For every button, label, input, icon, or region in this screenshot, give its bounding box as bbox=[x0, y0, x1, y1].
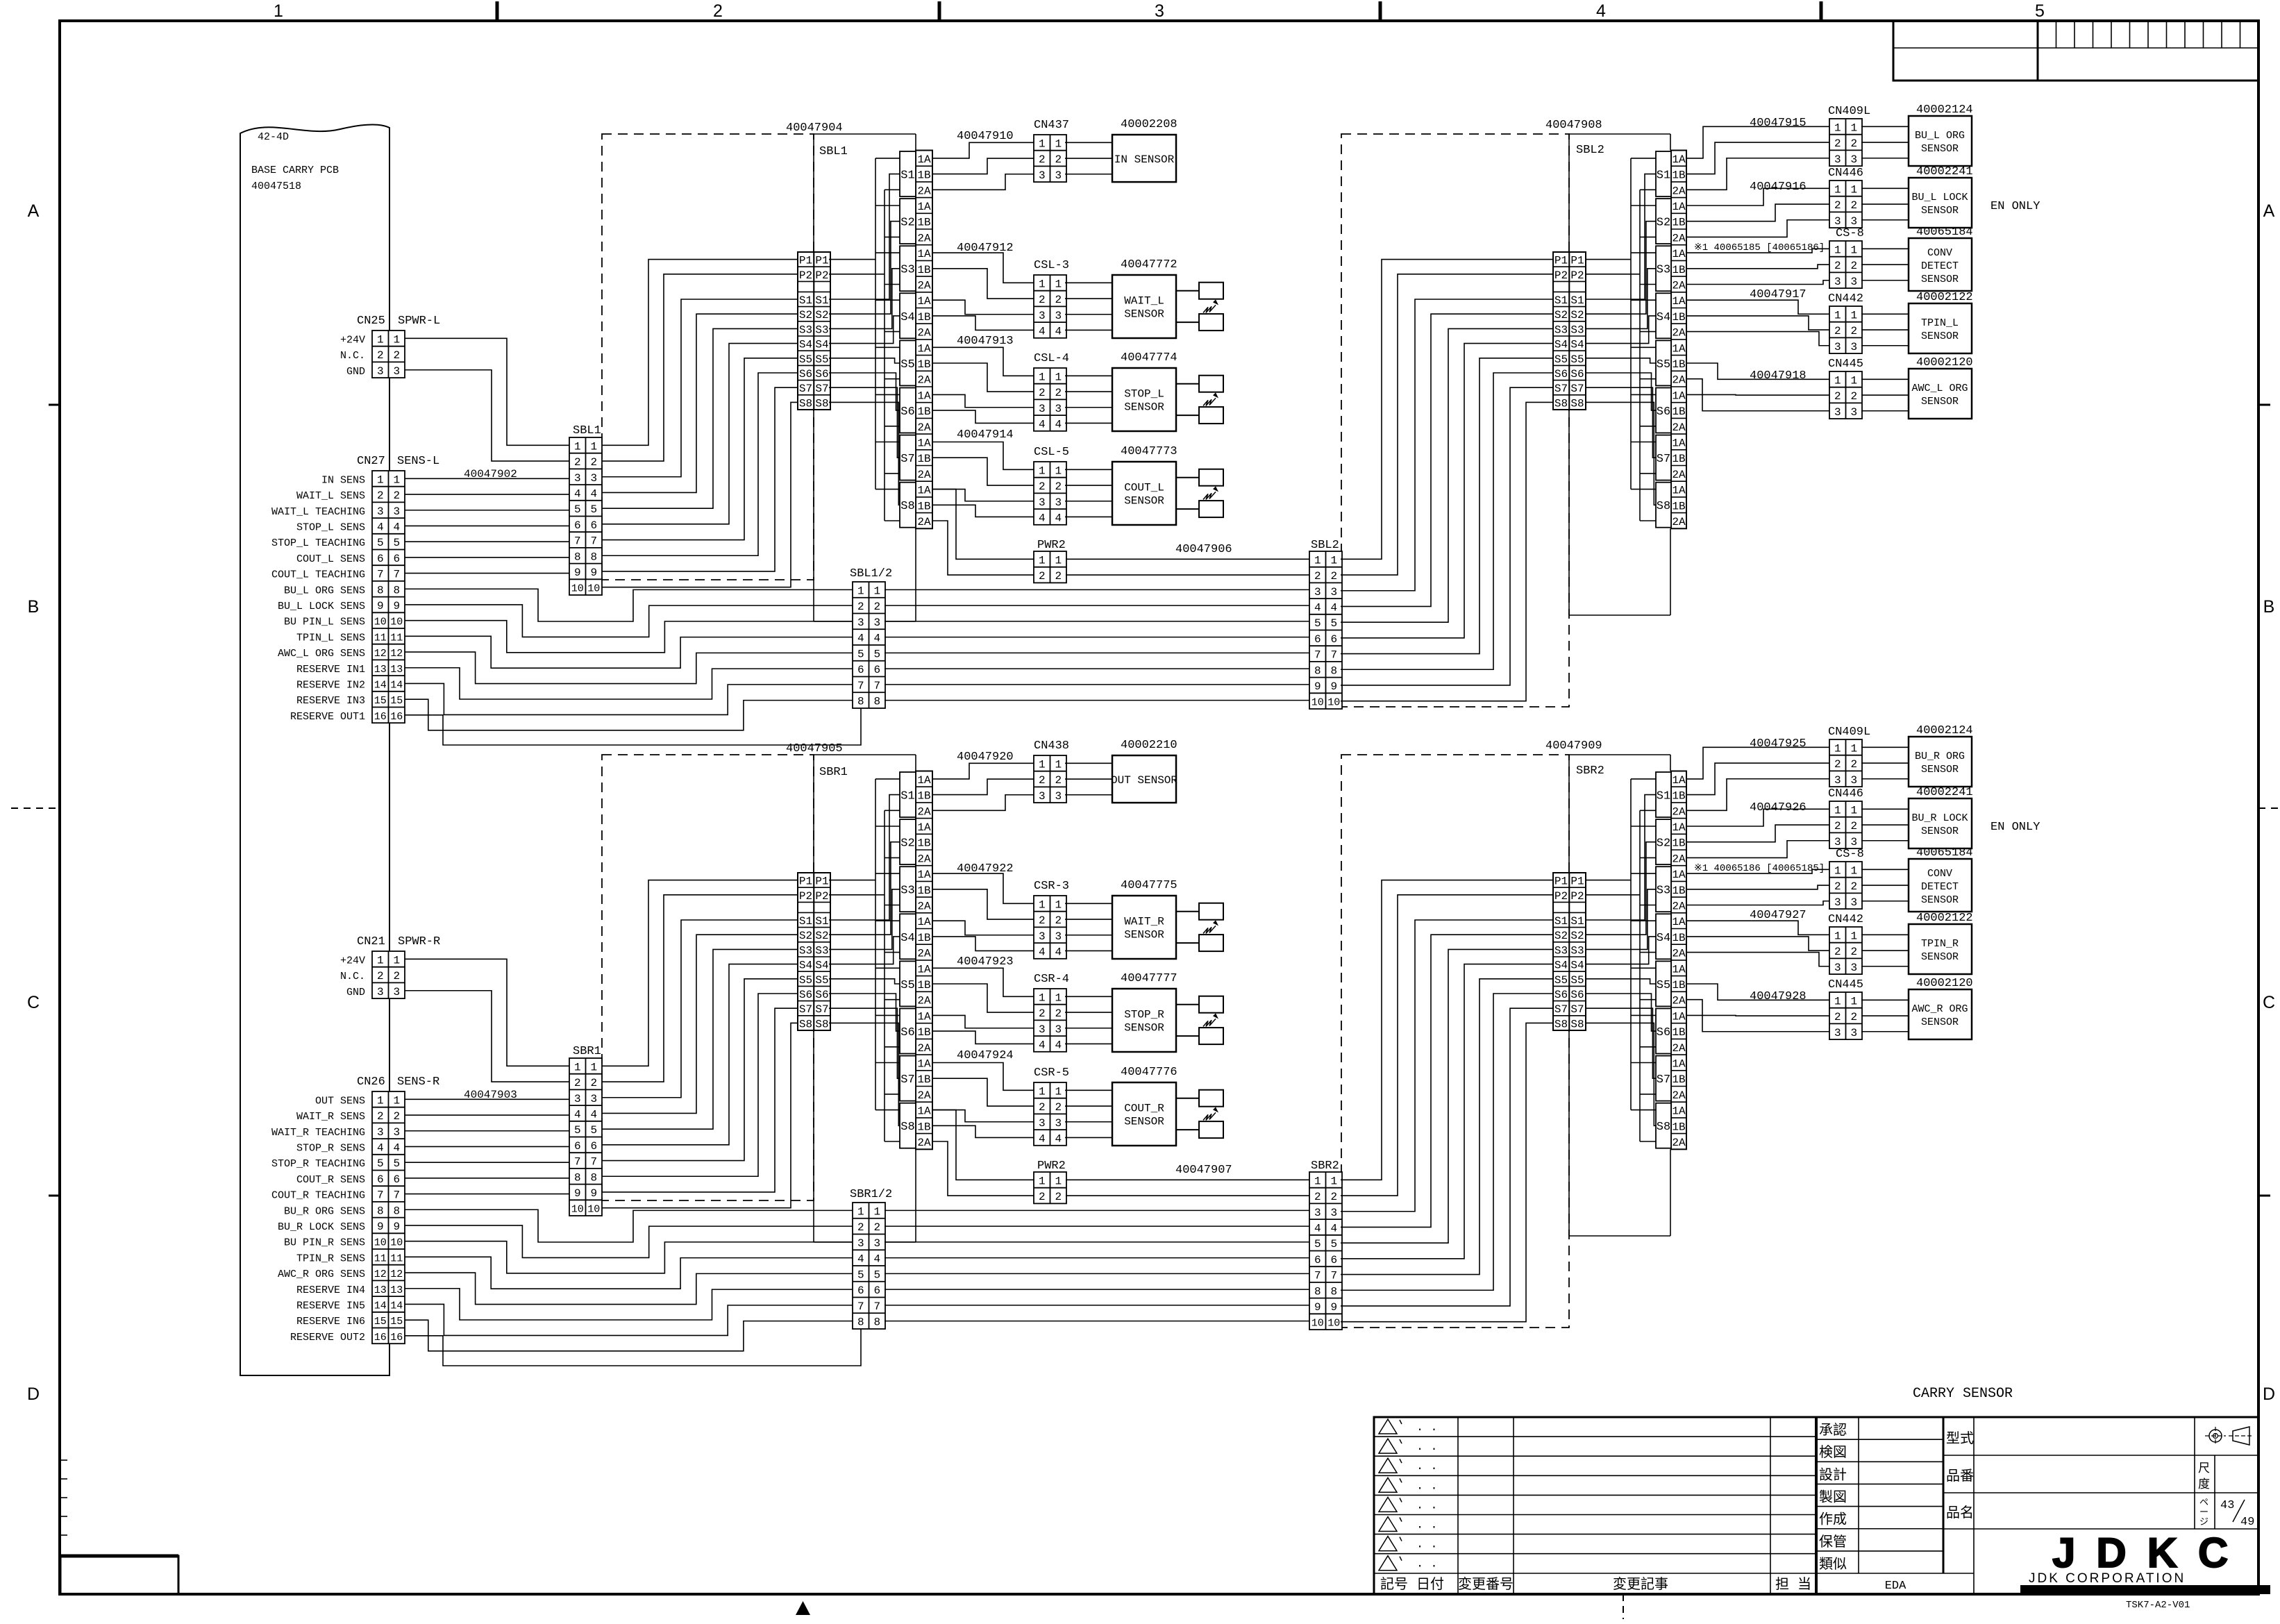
svg-text:40047918: 40047918 bbox=[1750, 369, 1807, 383]
wire CN26-7 to SBR1-9 bbox=[405, 1194, 569, 1195]
svg-text:2: 2 bbox=[377, 349, 384, 362]
svg-text:10: 10 bbox=[374, 1237, 387, 1249]
svg-text:1A: 1A bbox=[917, 153, 931, 166]
svg-text:WAIT_R: WAIT_R bbox=[1124, 916, 1164, 928]
svg-text:2: 2 bbox=[1850, 325, 1857, 337]
svg-text:40047907: 40047907 bbox=[1175, 1164, 1232, 1177]
svg-text:16: 16 bbox=[390, 711, 403, 723]
svg-text:SBR1: SBR1 bbox=[573, 1045, 601, 1058]
svg-text:WAIT_R SENS: WAIT_R SENS bbox=[296, 1111, 365, 1123]
wire S6-1A to CSL-4-3 bbox=[932, 394, 1034, 407]
svg-text:3: 3 bbox=[377, 365, 384, 378]
harness internal connector P/S block of SBL1 bbox=[798, 252, 830, 410]
svg-text:S3: S3 bbox=[815, 944, 828, 957]
wire CN409L-2 to sensor 40002124 bbox=[1861, 142, 1909, 143]
svg-text:CSL-3: CSL-3 bbox=[1034, 259, 1069, 272]
svg-text:1: 1 bbox=[1834, 995, 1841, 1007]
svg-text:CS-8: CS-8 bbox=[1836, 848, 1864, 861]
svg-text:2: 2 bbox=[1850, 820, 1857, 832]
svg-text:BU_R ORG SENS: BU_R ORG SENS bbox=[284, 1205, 365, 1217]
wire SBR1/2-1 to SBR2-3 bbox=[885, 1209, 1309, 1211]
optical beam zigzag symbol of 40047772 bbox=[1203, 305, 1216, 312]
svg-text:1B: 1B bbox=[917, 932, 930, 944]
optical beam zigzag symbol of 40047776 bbox=[1203, 1112, 1216, 1120]
wire CN27-5 to SBL1-7 bbox=[405, 541, 569, 542]
svg-text:3: 3 bbox=[1039, 1023, 1046, 1036]
ground bus wire P2 to 2A pins of SBL2 groups bbox=[1586, 190, 1656, 521]
svg-text:7: 7 bbox=[377, 1189, 384, 1202]
svg-text:1: 1 bbox=[1039, 137, 1046, 150]
svg-text:2A: 2A bbox=[917, 327, 931, 340]
svg-text:1: 1 bbox=[1850, 309, 1857, 321]
signal wire S5 to 1B pin of group S5 bbox=[829, 979, 900, 984]
svg-text:1A: 1A bbox=[1672, 916, 1686, 928]
B/C boundary dashed extension marks bbox=[11, 807, 2279, 809]
svg-text:3: 3 bbox=[1850, 1027, 1857, 1039]
svg-text:BU_L LOCK: BU_L LOCK bbox=[1911, 192, 1968, 203]
svg-text:40002122: 40002122 bbox=[1916, 912, 1973, 925]
svg-text:2A: 2A bbox=[917, 1137, 931, 1149]
svg-text:S6: S6 bbox=[900, 1026, 914, 1039]
wire CN445-2 to sensor 40002120 bbox=[1861, 394, 1909, 396]
wire CN446-2 to sensor 40002241 bbox=[1861, 824, 1909, 826]
BASE CARRY PCB outline box bbox=[240, 125, 389, 1375]
wire CN445-1 to sensor 40002120 bbox=[1861, 999, 1909, 1001]
svg-text:2A: 2A bbox=[917, 421, 931, 434]
svg-text:2A: 2A bbox=[1672, 516, 1686, 528]
svg-text:2: 2 bbox=[1850, 390, 1857, 403]
svg-text:2A: 2A bbox=[917, 995, 931, 1007]
svg-text:S5: S5 bbox=[1554, 974, 1568, 987]
wire CN27-13 to SBL1/2-6 bbox=[405, 668, 853, 699]
svg-text:4: 4 bbox=[1055, 1039, 1062, 1051]
svg-text:9: 9 bbox=[1314, 680, 1321, 693]
wire SBR2-3 to unit pin S1 bbox=[1341, 920, 1553, 1212]
wire S8-2A to PWR2-2 bbox=[932, 1141, 1034, 1196]
svg-text:1: 1 bbox=[1834, 374, 1841, 387]
svg-text:S1: S1 bbox=[1570, 294, 1584, 307]
svg-text:3: 3 bbox=[857, 1237, 864, 1250]
wire S7-1A to CSR-5-1 bbox=[932, 1063, 1034, 1091]
wire CN446-1 to sensor 40002241 bbox=[1861, 808, 1909, 810]
wire CN26-9 to SBR1/2-2 bbox=[405, 1225, 853, 1257]
svg-text:SENSOR: SENSOR bbox=[1921, 396, 1959, 408]
wire SBR2-6 to unit pin S4 bbox=[1341, 964, 1553, 1259]
svg-text:CN409L: CN409L bbox=[1828, 105, 1870, 118]
svg-text:40047906: 40047906 bbox=[1175, 543, 1232, 556]
svg-text:8: 8 bbox=[873, 1316, 880, 1329]
svg-text:1B: 1B bbox=[917, 979, 930, 991]
svg-text:尺: 尺 bbox=[2198, 1462, 2210, 1476]
svg-text:2: 2 bbox=[377, 970, 384, 982]
wire CSL-3-3 to sensor 40047772 bbox=[1065, 314, 1112, 315]
svg-text:1A: 1A bbox=[917, 342, 931, 355]
connector CSR-4 pin block bbox=[1034, 989, 1066, 1052]
wire S7-1A to CSL-5-1 bbox=[932, 442, 1034, 470]
svg-text:1: 1 bbox=[873, 585, 880, 597]
wire CS-8-2 to sensor 40065184 bbox=[1861, 885, 1909, 886]
wire S6-1A to CN445-2 bbox=[1686, 1014, 1829, 1016]
dashed harness boundary box 40047909 SBR2 bbox=[1341, 755, 1569, 1328]
wire S4-1A to CN442-1 bbox=[1686, 921, 1829, 935]
wire S4-1A to CN442-1 bbox=[1686, 300, 1829, 314]
svg-text:40047775: 40047775 bbox=[1121, 879, 1177, 892]
svg-text:1A: 1A bbox=[1672, 869, 1686, 881]
svg-text:3: 3 bbox=[1055, 1023, 1062, 1036]
svg-text:1: 1 bbox=[1039, 278, 1046, 290]
sensor box 40065184 CONV bbox=[1909, 238, 1972, 291]
svg-text:EDA: EDA bbox=[1885, 1580, 1906, 1593]
svg-text:40065184: 40065184 bbox=[1916, 846, 1973, 860]
wire CN26-2 to SBR1-4 bbox=[405, 1114, 569, 1116]
svg-text:2A: 2A bbox=[1672, 995, 1686, 1007]
svg-text:2: 2 bbox=[1039, 774, 1046, 787]
svg-text:16: 16 bbox=[390, 1332, 403, 1343]
svg-text:AWC_L ORG SENS: AWC_L ORG SENS bbox=[278, 648, 365, 660]
svg-text:4: 4 bbox=[1039, 1039, 1046, 1051]
svg-text:DETECT: DETECT bbox=[1921, 881, 1959, 893]
svg-text:S3: S3 bbox=[1657, 885, 1670, 898]
svg-text:WAIT_L: WAIT_L bbox=[1124, 295, 1164, 308]
svg-text:8: 8 bbox=[1314, 664, 1321, 677]
svg-text:3: 3 bbox=[1055, 1117, 1062, 1130]
svg-text:8: 8 bbox=[574, 551, 581, 563]
svg-text:S5: S5 bbox=[1570, 353, 1584, 366]
svg-text:ペ: ペ bbox=[2199, 1498, 2208, 1508]
svg-text:D: D bbox=[27, 1384, 40, 1404]
svg-text:S4: S4 bbox=[1570, 960, 1584, 972]
svg-text:2: 2 bbox=[1850, 946, 1857, 958]
svg-text:S7: S7 bbox=[900, 1073, 914, 1087]
svg-text:3: 3 bbox=[393, 986, 400, 998]
svg-text:6: 6 bbox=[377, 1173, 384, 1186]
svg-text:1B: 1B bbox=[1672, 932, 1685, 944]
wire SBR1-8 to unit pin S6 bbox=[602, 994, 798, 1176]
svg-text:RESERVE IN3: RESERVE IN3 bbox=[296, 695, 365, 707]
svg-text:1A: 1A bbox=[1672, 485, 1686, 497]
svg-text:4: 4 bbox=[1039, 325, 1046, 337]
connector CS-8 pin block bbox=[1829, 241, 1862, 288]
svg-text:15: 15 bbox=[374, 1316, 387, 1328]
svg-text:ジ: ジ bbox=[2199, 1517, 2208, 1527]
svg-text:40002241: 40002241 bbox=[1916, 786, 1973, 799]
connector SBR2 pin block bbox=[1309, 1172, 1342, 1330]
wire CN445-2 to sensor 40002120 bbox=[1861, 1015, 1909, 1016]
wire SBR1-6 to unit pin S4 bbox=[602, 964, 798, 1145]
svg-text:8: 8 bbox=[393, 1205, 400, 1217]
signal wire S6 to 1B pin of group S6 (SBR2) bbox=[1586, 994, 1656, 1031]
svg-text:2: 2 bbox=[1834, 946, 1841, 958]
wire CSR-5-2 to sensor 40047776 bbox=[1065, 1105, 1112, 1107]
wire CN437-3 to sensor 40002208 bbox=[1065, 174, 1112, 175]
svg-text:40002210: 40002210 bbox=[1121, 739, 1177, 752]
svg-text:2: 2 bbox=[1834, 325, 1841, 337]
svg-text:CS-8: CS-8 bbox=[1836, 227, 1864, 240]
wire SBR2-2 to unit pin P2 bbox=[1341, 895, 1553, 1196]
svg-text:S5: S5 bbox=[900, 979, 914, 992]
shield drain wire loop of SBR1 bbox=[814, 755, 916, 1242]
svg-text:S8: S8 bbox=[1570, 1018, 1584, 1030]
svg-text:BU PIN_L SENS: BU PIN_L SENS bbox=[284, 617, 365, 628]
svg-text:14: 14 bbox=[374, 1300, 387, 1312]
svg-text:S3: S3 bbox=[900, 264, 914, 277]
svg-text:3: 3 bbox=[590, 472, 597, 485]
svg-text:1: 1 bbox=[377, 1094, 384, 1107]
svg-text:2: 2 bbox=[1055, 570, 1062, 583]
svg-text:CN445: CN445 bbox=[1828, 358, 1863, 371]
wire S1-1A to CN409L-1 bbox=[1686, 747, 1829, 779]
svg-text:4: 4 bbox=[393, 1141, 400, 1154]
svg-text:40047924: 40047924 bbox=[957, 1049, 1014, 1062]
JDKC corporation logo bbox=[2020, 1530, 2270, 1594]
svg-text:製図: 製図 bbox=[1819, 1489, 1847, 1506]
wire SBR1/2-8 to SBR2-10 bbox=[885, 1321, 1309, 1322]
sensor box 40002210 bbox=[1111, 755, 1177, 803]
wire S6-1B to CSR-4-4 bbox=[932, 1031, 1034, 1044]
signal wire S3 to 1B pin of group S3 (SBL2) bbox=[1586, 269, 1656, 329]
svg-text:1: 1 bbox=[1314, 1175, 1321, 1187]
svg-text:S2: S2 bbox=[1554, 309, 1568, 321]
signal wire S7 to 1B pin of group S7 bbox=[829, 1008, 900, 1078]
svg-text:2A: 2A bbox=[917, 279, 931, 292]
wire CN27-10 to SBL1/2-3 bbox=[405, 621, 853, 653]
svg-text:S6: S6 bbox=[1657, 405, 1670, 419]
svg-text:2: 2 bbox=[1834, 820, 1841, 832]
svg-text:S1: S1 bbox=[815, 294, 828, 307]
svg-text:10: 10 bbox=[1327, 697, 1340, 709]
svg-text:1: 1 bbox=[1330, 1175, 1337, 1187]
svg-text:CARRY SENSOR: CARRY SENSOR bbox=[1913, 1386, 2013, 1402]
reflector target boxes of 40047773 bbox=[1176, 469, 1223, 517]
connector CN442 pin block bbox=[1829, 927, 1862, 974]
svg-text:7: 7 bbox=[574, 535, 581, 548]
power bus wire P1 to 1A pins of SBR1 groups bbox=[829, 779, 900, 1110]
svg-text:10: 10 bbox=[1311, 697, 1324, 709]
svg-text:S8: S8 bbox=[815, 1018, 828, 1030]
wire CN442-3 to sensor 40002122 bbox=[1861, 345, 1909, 346]
svg-text:5: 5 bbox=[873, 1269, 880, 1281]
wire S5-1A to CSL-4-1 bbox=[932, 347, 1034, 376]
svg-text:1: 1 bbox=[274, 1, 283, 21]
svg-text:9: 9 bbox=[393, 1221, 400, 1233]
wire S1-1B to CN437-2 bbox=[932, 158, 1034, 174]
svg-text:1B: 1B bbox=[917, 358, 930, 371]
svg-text:6: 6 bbox=[393, 553, 400, 565]
wire CN27-2 to SBL1-4 bbox=[405, 494, 569, 495]
reflector target boxes of 40047774 bbox=[1176, 376, 1223, 424]
connector CSR-5 pin block bbox=[1034, 1082, 1066, 1146]
svg-text:11: 11 bbox=[390, 1253, 403, 1264]
svg-text:CN445: CN445 bbox=[1828, 978, 1863, 991]
sensor box 40002124 BU_L ORG bbox=[1909, 116, 1972, 166]
wire CN442-2 to sensor 40002122 bbox=[1861, 329, 1909, 330]
svg-text:S8: S8 bbox=[1554, 1018, 1568, 1030]
wire S1-2A to CN409L-3 bbox=[1686, 779, 1829, 811]
svg-text:S2: S2 bbox=[1657, 837, 1670, 851]
wire S4-1B to CSL-3-4 bbox=[932, 316, 1034, 330]
svg-text:+24V: +24V bbox=[340, 334, 365, 346]
wire CSL-3-1 to sensor 40047772 bbox=[1065, 282, 1112, 283]
svg-text:1: 1 bbox=[1850, 742, 1857, 755]
svg-text:5: 5 bbox=[1314, 1238, 1321, 1250]
wire S4-2A to CN442-3 bbox=[1686, 332, 1829, 346]
svg-text:8: 8 bbox=[590, 1171, 597, 1184]
svg-text:S7: S7 bbox=[799, 1003, 812, 1016]
svg-text:S3: S3 bbox=[1554, 944, 1568, 957]
svg-text:S5: S5 bbox=[1554, 353, 1568, 366]
svg-text:1: 1 bbox=[1850, 995, 1857, 1007]
svg-text:. .: . . bbox=[1416, 1480, 1438, 1493]
svg-text:2: 2 bbox=[1039, 1101, 1046, 1114]
wire CN26-10 to SBR1/2-3 bbox=[405, 1241, 853, 1273]
svg-text:S3: S3 bbox=[799, 324, 812, 336]
wire CSL-5-3 to sensor 40047773 bbox=[1065, 501, 1112, 502]
svg-text:9: 9 bbox=[590, 1187, 597, 1200]
svg-text:7: 7 bbox=[590, 1156, 597, 1169]
shield drain wire loop of SBL2 bbox=[1569, 134, 1670, 615]
connector PWR2 pin block bbox=[1034, 1172, 1066, 1203]
connector CN445 pin block bbox=[1829, 992, 1862, 1039]
svg-text:保管: 保管 bbox=[1819, 1534, 1847, 1551]
svg-text:RESERVE IN6: RESERVE IN6 bbox=[296, 1316, 365, 1328]
svg-text:1A: 1A bbox=[917, 201, 931, 213]
svg-text:4: 4 bbox=[590, 487, 597, 500]
wire CSL-4-3 to sensor 40047774 bbox=[1065, 407, 1112, 408]
svg-text:IN SENS: IN SENS bbox=[321, 474, 365, 486]
wire CN27-9 to SBL1/2-2 bbox=[405, 605, 853, 637]
wire SBR2-7 to unit pin S5 bbox=[1341, 979, 1553, 1275]
svg-text:9: 9 bbox=[377, 1221, 384, 1233]
svg-text:1: 1 bbox=[1039, 371, 1046, 383]
wire PWR2-2 to SBR2-2 bbox=[1066, 1195, 1309, 1196]
signal wire S2 to 1B pin of group S2 bbox=[829, 842, 900, 935]
svg-text:3: 3 bbox=[590, 1093, 597, 1105]
svg-text:13: 13 bbox=[390, 1284, 403, 1296]
wire S6-1A to CSR-4-3 bbox=[932, 1015, 1034, 1028]
svg-text:S2: S2 bbox=[900, 837, 914, 851]
svg-text:2A: 2A bbox=[917, 516, 931, 528]
svg-text:1: 1 bbox=[1039, 991, 1046, 1004]
svg-text:9: 9 bbox=[590, 567, 597, 579]
wire CN27-6 to SBL1-8 bbox=[405, 557, 569, 558]
svg-text:STOP_R TEACHING: STOP_R TEACHING bbox=[271, 1158, 365, 1170]
svg-text:7: 7 bbox=[590, 535, 597, 548]
svg-text:2: 2 bbox=[857, 1221, 864, 1234]
svg-text:40047909: 40047909 bbox=[1545, 739, 1602, 753]
svg-text:2A: 2A bbox=[917, 185, 931, 197]
wire S2-1A to CN446-1 bbox=[1686, 809, 1829, 826]
wire S3-1A to CSL-3-1 bbox=[932, 253, 1034, 283]
svg-text:S4: S4 bbox=[799, 339, 812, 351]
svg-text:4: 4 bbox=[574, 487, 581, 500]
dashed harness boundary box 40047904 SBL1 bbox=[602, 134, 814, 580]
svg-text:3: 3 bbox=[1850, 774, 1857, 787]
wire SBR2-5 to unit pin S3 bbox=[1341, 949, 1553, 1243]
svg-text:S4: S4 bbox=[799, 960, 812, 972]
svg-text:2A: 2A bbox=[1672, 469, 1686, 481]
svg-text:A: A bbox=[28, 201, 40, 221]
svg-text:EN ONLY: EN ONLY bbox=[1990, 821, 2040, 834]
svg-text:度: 度 bbox=[2198, 1477, 2210, 1492]
svg-text:1B: 1B bbox=[1672, 358, 1685, 371]
svg-text:6: 6 bbox=[1330, 1254, 1337, 1266]
svg-text:SBR2: SBR2 bbox=[1311, 1160, 1339, 1173]
svg-text:S3: S3 bbox=[1657, 264, 1670, 277]
svg-text:S5: S5 bbox=[1657, 358, 1670, 371]
wire CN26-1 to SBR1-3 bbox=[405, 1098, 569, 1100]
signal wire S8 to 1B pin of group S8 bbox=[829, 1023, 900, 1125]
wire SBL1-3 to unit pin S1 bbox=[602, 299, 798, 477]
svg-text:40047905: 40047905 bbox=[786, 742, 843, 755]
svg-text:2: 2 bbox=[1039, 570, 1046, 583]
wire S4-1B to CN442-2 bbox=[1686, 316, 1829, 330]
svg-text:P2: P2 bbox=[1570, 269, 1584, 282]
svg-text:6: 6 bbox=[590, 519, 597, 532]
svg-text:1: 1 bbox=[1039, 1085, 1046, 1098]
signal wire S7 to 1B pin of group S7 (SBR2) bbox=[1586, 1008, 1656, 1078]
svg-text:1B: 1B bbox=[1672, 453, 1685, 465]
svg-text:GND: GND bbox=[346, 987, 365, 998]
svg-text:WAIT_L TEACHING: WAIT_L TEACHING bbox=[271, 506, 365, 518]
svg-text:1B: 1B bbox=[1672, 1026, 1685, 1039]
power bus wire P1 to 1A pins of SBR2 groups bbox=[1586, 779, 1656, 1110]
svg-text:3: 3 bbox=[1834, 341, 1841, 353]
svg-text:1: 1 bbox=[1055, 464, 1062, 477]
svg-text:6: 6 bbox=[590, 1140, 597, 1153]
svg-text:1: 1 bbox=[1039, 898, 1046, 911]
reflector target boxes of 40047777 bbox=[1176, 996, 1223, 1044]
svg-text:1B: 1B bbox=[917, 405, 930, 418]
wire SBR2-4 to unit pin S2 bbox=[1341, 935, 1553, 1227]
wire SBR2-9 to unit pin S7 bbox=[1341, 1008, 1553, 1306]
wire SBL1/2-3 to SBL2-5 bbox=[885, 621, 1309, 622]
svg-text:S7: S7 bbox=[900, 453, 914, 466]
connector CN21 pin block bbox=[372, 951, 405, 998]
svg-text:2: 2 bbox=[393, 489, 400, 502]
svg-text:14: 14 bbox=[390, 679, 403, 691]
svg-text:S8: S8 bbox=[1657, 500, 1670, 513]
wire SBL1-4 to unit pin S2 bbox=[602, 314, 798, 492]
power bus wire P1 to 1A pins of SBL1 groups bbox=[829, 158, 900, 489]
wire S7-1B to CSL-5-2 bbox=[932, 458, 1034, 485]
svg-text:3: 3 bbox=[1155, 1, 1164, 21]
svg-text:COUT_R SENS: COUT_R SENS bbox=[296, 1174, 365, 1186]
svg-text:日付: 日付 bbox=[1416, 1576, 1444, 1593]
sensor branch block S1-S8 of SBL1 with pins 1A/1B/2A bbox=[900, 151, 932, 529]
connector CN445 pin block bbox=[1829, 371, 1862, 419]
connector CN442 pin block bbox=[1829, 306, 1862, 353]
svg-text:S5: S5 bbox=[1570, 974, 1584, 987]
wire CN409L-1 to sensor 40002124 bbox=[1861, 746, 1909, 748]
svg-text:12: 12 bbox=[390, 648, 403, 660]
svg-text:4: 4 bbox=[1055, 325, 1062, 337]
svg-text:40047908: 40047908 bbox=[1545, 119, 1602, 132]
svg-text:1B: 1B bbox=[917, 1121, 930, 1133]
svg-text:ー: ー bbox=[2199, 1507, 2208, 1518]
wire SBR1-10 to unit pin S8 bbox=[602, 1023, 798, 1207]
svg-text:P2: P2 bbox=[1570, 890, 1584, 903]
svg-text:4: 4 bbox=[873, 633, 880, 645]
wire S5-2A to CN445-3 bbox=[1686, 379, 1829, 411]
svg-text:6: 6 bbox=[1330, 633, 1337, 646]
svg-text:1: 1 bbox=[393, 474, 400, 486]
svg-text:S5: S5 bbox=[1657, 979, 1670, 992]
svg-text:検図: 検図 bbox=[1819, 1444, 1847, 1462]
svg-text:1: 1 bbox=[1039, 758, 1046, 771]
svg-text:1: 1 bbox=[1055, 758, 1062, 771]
svg-text:1: 1 bbox=[1330, 554, 1337, 567]
svg-text:C: C bbox=[2263, 993, 2275, 1012]
